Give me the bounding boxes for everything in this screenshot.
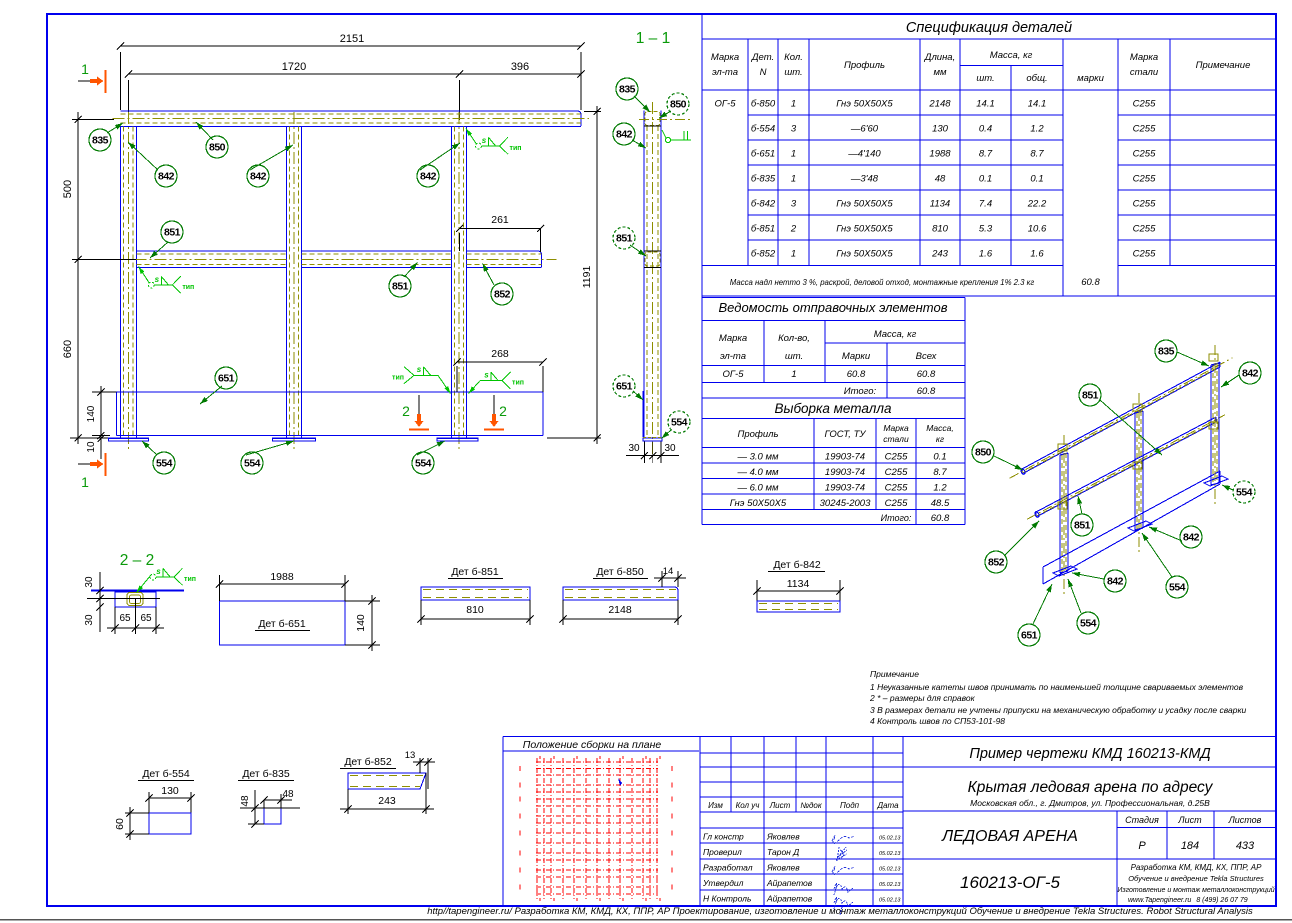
iso joints (1058, 354, 1218, 509)
weld symbol (1-1) (662, 130, 691, 143)
leader to 842 #3 (420, 143, 460, 170)
svg-text:Марка: Марка (711, 52, 739, 63)
signature table (700, 737, 903, 907)
svg-text:стали: стали (1130, 67, 1159, 78)
polozhenie header (503, 739, 699, 751)
title block frame (503, 737, 1276, 907)
iso leader 554 low (1068, 579, 1081, 613)
iso beam 850 (1010, 358, 1233, 478)
svg-text:48: 48 (282, 789, 294, 800)
vedomost table text (719, 300, 954, 524)
svg-text:842: 842 (1183, 532, 1200, 544)
svg-text:Дет.: Дет. (751, 52, 774, 63)
label circle 842 (247, 165, 269, 187)
svg-text:140: 140 (355, 614, 367, 632)
svg-text:842: 842 (1242, 368, 1259, 380)
svg-text:Дет б-835: Дет б-835 (242, 768, 290, 780)
svg-text:тип: тип (512, 380, 524, 387)
svg-text:б-554: б-554 (751, 124, 775, 135)
svg-text:48: 48 (935, 174, 946, 185)
detail b-651 label (255, 618, 310, 631)
detail b-842 label (768, 559, 825, 572)
svg-text:Положение сборки на плане: Положение сборки на плане (523, 739, 662, 751)
svg-text:2: 2 (499, 403, 507, 419)
label circle 554 (1166, 576, 1188, 598)
svg-text:Гл констр: Гл констр (703, 832, 744, 842)
svg-text:Кол уч: Кол уч (736, 801, 760, 810)
svg-text:Крытая ледовая арена по адресу: Крытая ледовая арена по адресу (968, 779, 1214, 796)
svg-text:— 6.0 мм: — 6.0 мм (736, 483, 778, 494)
svg-text:Дет б-852: Дет б-852 (344, 756, 392, 768)
label circle 842 (1104, 570, 1126, 592)
specification table (702, 14, 1276, 296)
svg-text:851: 851 (392, 281, 409, 293)
svg-text:60.8: 60.8 (917, 369, 936, 380)
svg-text:С255: С255 (885, 498, 908, 509)
label circle 554 (153, 452, 175, 474)
dimension 140 / 10 (86, 386, 117, 459)
svg-text:1720: 1720 (282, 61, 306, 73)
section 2-2 tube cross-section (115, 592, 156, 607)
svg-text:Р: Р (1138, 840, 1146, 852)
svg-text:396: 396 (511, 61, 529, 73)
label circle 850 (667, 93, 689, 115)
leader to 554 #3 (417, 441, 445, 455)
svg-text:тип: тип (182, 284, 194, 291)
leader to 851 label (150, 242, 168, 258)
label circle 852 (491, 283, 513, 305)
svg-text:Кол.: Кол. (784, 52, 803, 63)
svg-text:8.7: 8.7 (1030, 149, 1044, 160)
detail b-852 dim 13 (405, 750, 435, 789)
svg-text:851: 851 (1074, 520, 1091, 532)
iso leader 554 mid (1142, 533, 1172, 577)
leader to 842 (1-1) (632, 140, 646, 148)
svg-text:Итого:: Итого: (844, 386, 877, 397)
svg-text:s: s (484, 371, 489, 380)
svg-text:Гнэ 50X50X5: Гнэ 50X50X5 (836, 224, 893, 235)
detail b-851 dim 810 (417, 600, 533, 625)
svg-text:660: 660 (62, 340, 74, 358)
iso base plate 554 C (1204, 476, 1228, 486)
svg-text:810: 810 (466, 604, 484, 616)
dimension 268 (453, 348, 546, 392)
section 1-1 plate 651 edge (642, 391, 644, 437)
svg-text:Дата: Дата (876, 801, 899, 810)
svg-text:s: s (155, 275, 160, 284)
leader to 850 (1-1) dashed (659, 111, 671, 118)
svg-text:60.8: 60.8 (931, 513, 950, 524)
svg-text:Стадия: Стадия (1125, 815, 1159, 825)
detail b-835 dims 48x48 (240, 789, 300, 828)
svg-text:www.Tapengineer.ru: www.Tapengineer.ru (1128, 897, 1191, 904)
svg-text:60.8: 60.8 (1081, 277, 1100, 288)
dimension 2151 top (117, 33, 585, 110)
leader to 850 (196, 122, 213, 140)
label circle 835 (616, 78, 638, 100)
svg-text:05.02.13: 05.02.13 (879, 851, 901, 857)
svg-text:Айрапетов: Айрапетов (766, 894, 813, 904)
svg-text:Профиль: Профиль (844, 60, 885, 71)
svg-text:Гнэ 50X50X5: Гнэ 50X50X5 (836, 99, 893, 110)
iso column 842 B (1135, 393, 1143, 552)
svg-text:С255: С255 (885, 467, 908, 478)
label circle 851 (613, 227, 635, 249)
svg-text:С255: С255 (1133, 199, 1156, 210)
label circle 554 (412, 452, 434, 474)
svg-text:554: 554 (156, 458, 173, 470)
svg-text:№док: №док (800, 801, 823, 810)
title section cells (903, 767, 1276, 906)
svg-text:Московская обл., г. Дмитров, у: Московская обл., г. Дмитров, ул. Професс… (970, 798, 1210, 808)
svg-text:С255: С255 (885, 452, 908, 463)
svg-text:851: 851 (1082, 390, 1099, 402)
svg-text:05.02.13: 05.02.13 (879, 898, 901, 904)
svg-text:тип: тип (184, 576, 196, 583)
svg-text:243: 243 (931, 249, 949, 260)
svg-text:Разработал: Разработал (703, 863, 753, 873)
svg-text:б-835: б-835 (751, 174, 776, 185)
section 2-2 dims 30/30 and 65/65 (84, 572, 164, 634)
leader to 554 (1-1) (662, 430, 672, 439)
label circle 835 (1155, 340, 1177, 362)
label circle 842 (1239, 362, 1261, 384)
svg-text:Разработка КМ, КМД, КХ, ППР, А: Разработка КМ, КМД, КХ, ППР, АР (1131, 863, 1263, 872)
label circle 852 (985, 551, 1007, 573)
svg-text:60: 60 (114, 818, 126, 830)
svg-text:1134: 1134 (787, 578, 810, 590)
detail b-852 bar (348, 773, 426, 789)
svg-text:19903-74: 19903-74 (825, 452, 865, 463)
iso beam 851-852 (1027, 415, 1225, 519)
svg-text:Изм: Изм (708, 801, 723, 810)
detail b-842 bar (757, 601, 840, 612)
svg-text:С255: С255 (1133, 124, 1156, 135)
iso base plate 554 B (1128, 521, 1152, 531)
leader to 842 #1 (128, 142, 158, 170)
weld symbol (2-2) (137, 567, 196, 593)
svg-text:500: 500 (62, 180, 74, 198)
iso column 842 C (1211, 345, 1219, 507)
svg-text:—3ʹ48: —3ʹ48 (850, 174, 879, 185)
label circle 651 (1018, 624, 1040, 646)
svg-text:—4ʹ140: —4ʹ140 (847, 149, 881, 160)
svg-text:б-851: б-851 (751, 224, 775, 235)
svg-text:Кол-во,: Кол-во, (778, 333, 810, 344)
svg-text:Яковлев: Яковлев (766, 832, 800, 842)
svg-text:852: 852 (494, 289, 511, 301)
svg-text:Дет б-554: Дет б-554 (142, 768, 190, 780)
svg-text:651: 651 (218, 373, 235, 385)
detail b-850 bar (563, 587, 678, 600)
detail b-554 label (138, 768, 194, 781)
svg-text:842: 842 (616, 129, 633, 141)
svg-text:Гнэ 50X50X5: Гнэ 50X50X5 (730, 498, 787, 509)
svg-text:Спецификация деталей: Спецификация деталей (906, 20, 1072, 36)
svg-text:2: 2 (402, 403, 410, 419)
label circle 842 (613, 123, 635, 145)
specification table text (711, 20, 1251, 288)
svg-text:Марка: Марка (719, 333, 747, 344)
svg-text:Гнэ 50X50X5: Гнэ 50X50X5 (836, 249, 893, 260)
leader to 835 (107, 123, 123, 133)
column 842 #2 (286, 112, 301, 452)
svg-text:Масса, кг: Масса, кг (874, 329, 917, 340)
svg-text:160213-ОГ-5: 160213-ОГ-5 (960, 873, 1061, 892)
svg-text:13: 13 (405, 750, 416, 761)
svg-text:Итого:: Итого: (881, 513, 912, 523)
svg-text:ГОСТ, ТУ: ГОСТ, ТУ (825, 429, 867, 440)
leader to 835 (1-1) (634, 96, 650, 112)
base plate 554 #3 (437, 438, 478, 441)
svg-text:1: 1 (791, 149, 796, 160)
label circle 850 (972, 441, 994, 463)
iso leader 852 (1004, 521, 1039, 556)
svg-text:С255: С255 (1133, 99, 1156, 110)
beam 851 left segment (114, 251, 286, 268)
detail b-651 plate (220, 601, 346, 645)
label circle 851 (1079, 384, 1101, 406)
svg-text:Айрапетов: Айрапетов (766, 878, 813, 888)
svg-text:851: 851 (164, 227, 181, 239)
svg-text:б-842: б-842 (751, 199, 776, 210)
svg-text:Примечание: Примечание (870, 669, 919, 679)
detail b-835 plate (264, 808, 281, 824)
svg-text:60.8: 60.8 (917, 386, 936, 397)
svg-text:8 (499) 26 07 79: 8 (499) 26 07 79 (1196, 897, 1247, 904)
svg-text:14: 14 (663, 566, 674, 577)
label circle 651 (613, 375, 635, 397)
svg-text:1: 1 (791, 174, 796, 185)
svg-text:842: 842 (250, 171, 267, 183)
weld symbol near 851 (139, 267, 195, 294)
column 842 #3 (451, 112, 466, 452)
svg-text:Марка: Марка (1130, 52, 1158, 63)
vedomost table (702, 296, 965, 525)
detail b-554 dim 60 (114, 807, 149, 840)
svg-text:Обучение и внедрение Tekla St: Обучение и внедрение Tekla Structures (1128, 874, 1264, 883)
iso leader 850 (994, 456, 1023, 470)
iso leader 851 top (1100, 400, 1162, 455)
leader to 651 (200, 386, 222, 404)
svg-text:Утвердил: Утвердил (702, 878, 744, 888)
svg-text:554: 554 (415, 458, 432, 470)
section 1-1 beam 851 cross-section (644, 251, 661, 268)
svg-text:651: 651 (1021, 630, 1038, 642)
svg-text:3: 3 (791, 199, 797, 210)
svg-text:850: 850 (975, 447, 992, 459)
iso leader 554 right dashed (1222, 485, 1233, 491)
svg-text:05.02.13: 05.02.13 (879, 836, 901, 842)
svg-text:2: 2 (790, 224, 797, 235)
svg-text:Дет б-651: Дет б-651 (258, 618, 306, 630)
beam 852 right segment (467, 251, 557, 268)
section 1-1 column 842 (644, 102, 661, 455)
signature scribbles (832, 835, 855, 915)
svg-text:130: 130 (932, 124, 949, 135)
svg-text:С255: С255 (1133, 174, 1156, 185)
svg-text:— 3.0 мм: — 3.0 мм (736, 452, 778, 463)
svg-text:Дет б-842: Дет б-842 (773, 559, 821, 571)
svg-text:1988: 1988 (929, 149, 951, 160)
svg-text:1: 1 (791, 369, 796, 380)
svg-text:8.7: 8.7 (933, 467, 947, 478)
label circle 554 (1233, 481, 1255, 503)
svg-text:243: 243 (378, 795, 396, 807)
svg-text:810: 810 (932, 224, 949, 235)
svg-text:Лист: Лист (769, 801, 791, 810)
svg-text:ОГ-5: ОГ-5 (714, 99, 736, 110)
svg-text:Масса надл нетто 3 %, раскрой: Масса надл нетто 3 %, раскрой, деловой о… (730, 278, 1035, 287)
svg-text:б-850: б-850 (751, 99, 776, 110)
svg-text:Примечание: Примечание (1196, 60, 1251, 71)
bottom grey line (0, 919, 1292, 921)
dimension 1151 right (547, 106, 601, 444)
svg-text:тип: тип (510, 145, 522, 152)
label circle 842 (155, 165, 177, 187)
section marker 1 top (78, 61, 106, 93)
detail b-851 label (448, 566, 503, 579)
svg-text:554: 554 (1236, 487, 1253, 499)
svg-text:19903-74: 19903-74 (825, 483, 865, 494)
svg-text:852: 852 (988, 557, 1005, 569)
svg-text:65: 65 (119, 613, 131, 624)
detail b-651 dim 1988 (216, 571, 349, 601)
svg-text:0.1: 0.1 (979, 174, 992, 185)
weld symbol bottom col3 left (flipped) (392, 365, 450, 393)
svg-text:марки: марки (1077, 73, 1105, 84)
svg-text:ОГ-5: ОГ-5 (722, 369, 744, 380)
iso leader 851 low (1077, 496, 1082, 514)
iso base plate 554 A (1053, 566, 1077, 576)
detail b-850 dim 2148 (559, 600, 681, 625)
svg-text:651: 651 (616, 381, 633, 393)
svg-text:шт.: шт. (784, 67, 802, 78)
red grid plan (520, 756, 672, 901)
svg-text:3 В размерах детали не учтены: 3 В размерах детали не учтены припуски н… (870, 705, 1246, 715)
svg-text:184: 184 (1181, 840, 1199, 852)
svg-text:N: N (760, 67, 767, 78)
svg-text:30: 30 (84, 576, 95, 588)
label circle 842 (417, 165, 439, 187)
plate 651 (elevation) (117, 392, 544, 436)
svg-text:433: 433 (1236, 840, 1255, 852)
svg-text:С255: С255 (1133, 249, 1156, 260)
svg-text:30: 30 (84, 614, 95, 626)
svg-text:10: 10 (86, 441, 97, 453)
svg-text:3: 3 (791, 124, 797, 135)
label circle 651 (215, 367, 237, 389)
base plate 554 #2 (273, 438, 316, 441)
svg-text:ЛЕДОВАЯ АРЕНА: ЛЕДОВАЯ АРЕНА (941, 828, 1078, 845)
label circle 554 (241, 452, 263, 474)
label circle 851 (161, 221, 183, 243)
svg-text:554: 554 (244, 458, 261, 470)
svg-text:— 4.0 мм: — 4.0 мм (736, 467, 778, 478)
svg-text:Масса,: Масса, (926, 423, 954, 433)
dimension 500 / 660 left (62, 112, 136, 444)
svg-text:130: 130 (161, 785, 179, 797)
svg-text:шт.: шт. (785, 351, 803, 362)
svg-text:850: 850 (670, 99, 687, 111)
label circle 851 (389, 275, 411, 297)
svg-text:Марки: Марки (842, 351, 871, 362)
detail b-852 dim 243 (340, 773, 434, 814)
beam 851 middle segment (302, 251, 452, 268)
svg-text:б-852: б-852 (751, 249, 776, 260)
iso plate 651 (1043, 471, 1220, 584)
svg-text:Н Контроль: Н Контроль (703, 894, 751, 904)
leader to 554 #1 (142, 441, 157, 455)
svg-text:851: 851 (616, 233, 633, 245)
svg-text:Проверил: Проверил (703, 847, 742, 857)
iso leader 842 low (1072, 572, 1104, 579)
svg-text:шт.: шт. (976, 73, 994, 84)
section marker 2 left (402, 395, 429, 430)
svg-text:1 – 1: 1 – 1 (636, 30, 670, 47)
svg-text:б-651: б-651 (751, 149, 775, 160)
svg-text:140: 140 (86, 405, 97, 422)
detail b-850 label (593, 566, 648, 579)
svg-text:мм: мм (933, 67, 947, 78)
label circle 842 (1180, 526, 1202, 548)
detail b-850 dim 14 (654, 566, 686, 587)
svg-text:7.4: 7.4 (979, 199, 992, 210)
svg-text:835: 835 (1158, 346, 1175, 358)
svg-text:5.3: 5.3 (979, 224, 993, 235)
label circle 554 (668, 411, 690, 433)
svg-text:Марка: Марка (883, 423, 909, 433)
svg-text:Гнэ 50X50X5: Гнэ 50X50X5 (836, 199, 893, 210)
label circle 554 (1077, 612, 1099, 634)
svg-text:835: 835 (619, 84, 636, 96)
svg-text:0.4: 0.4 (979, 124, 992, 135)
svg-text:842: 842 (1107, 576, 1124, 588)
svg-text:1.2: 1.2 (933, 483, 947, 494)
section 2-2 plate 651 edge-on (91, 589, 184, 591)
title texts (941, 746, 1275, 904)
svg-text:10.6: 10.6 (1028, 224, 1047, 235)
leader to 851 #2 (404, 263, 418, 278)
svg-text:s: s (417, 365, 422, 374)
svg-text:0.1: 0.1 (1030, 174, 1043, 185)
svg-text:Листов: Листов (1228, 815, 1262, 825)
svg-text:эл-та: эл-та (712, 67, 738, 78)
svg-text:Тарон Д: Тарон Д (767, 847, 799, 857)
svg-text:842: 842 (158, 171, 175, 183)
svg-text:эл-та: эл-та (720, 351, 746, 362)
label circle 850 (206, 136, 228, 158)
svg-text:Дет б-850: Дет б-850 (596, 566, 644, 578)
label circle 851 (1071, 514, 1093, 536)
svg-text:842: 842 (420, 171, 437, 183)
svg-text:835: 835 (92, 135, 109, 147)
weld symbol bottom col3 right (469, 371, 524, 394)
svg-text:Пример чертежи КМД 160213-КМ: Пример чертежи КМД 160213-КМД (969, 746, 1210, 762)
svg-text:стали: стали (883, 434, 909, 444)
svg-text:Профиль: Профиль (737, 429, 778, 440)
section marker 2 right (484, 395, 507, 430)
svg-text:2148: 2148 (608, 604, 632, 616)
svg-text:Дет б-851: Дет б-851 (451, 566, 499, 578)
iso leader 842 top (1221, 375, 1239, 387)
svg-text:60.8: 60.8 (847, 369, 866, 380)
iso column 842 A (1060, 435, 1068, 595)
svg-text:1: 1 (81, 61, 89, 77)
section marker 1 bottom (78, 453, 106, 490)
svg-text:0.1: 0.1 (933, 452, 946, 463)
iso leader 842 mid (1149, 527, 1182, 541)
